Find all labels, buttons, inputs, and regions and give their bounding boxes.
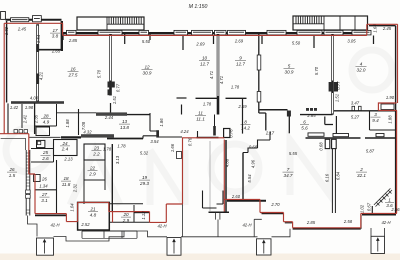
svg-text:2.85: 2.85 (68, 38, 78, 43)
window right notch (381, 104, 394, 110)
svg-text:1.34: 1.34 (39, 184, 48, 189)
svg-text:24: 24 (61, 141, 68, 146)
svg-text:42-Н: 42-Н (50, 223, 60, 228)
wall bottom of room14 hatched (11, 101, 64, 104)
niche center wall (224, 129, 230, 138)
svg-text:4.24: 4.24 (180, 129, 189, 134)
duct box above wall (36, 127, 50, 136)
svg-text:22: 22 (89, 166, 96, 171)
svg-text:30.9: 30.9 (143, 70, 152, 75)
wall x150 (150, 113, 157, 131)
svg-text:0.77: 0.77 (336, 81, 341, 90)
door niche on red wall (177, 152, 182, 159)
svg-text:2.69: 2.69 (234, 39, 244, 44)
svg-text:2.45: 2.45 (17, 27, 27, 32)
svg-text:2.35: 2.35 (34, 114, 39, 124)
svg-text:21: 21 (89, 207, 96, 212)
svg-text:16: 16 (70, 67, 76, 72)
room7 top step walls (243, 132, 270, 153)
svg-text:2.31: 2.31 (73, 184, 78, 193)
center wall mid (214, 115, 216, 127)
room2 top wall (306, 137, 361, 139)
svg-text:5.50: 5.50 (142, 39, 151, 44)
kitchen niche piers (352, 106, 361, 110)
entrance boxes with arrows (37, 236, 385, 255)
arrow B1 (44, 242, 46, 254)
svg-text:2.2: 2.2 (92, 151, 100, 156)
cross wall center right (226, 97, 247, 99)
svg-text:1.88: 1.88 (65, 119, 70, 128)
room17 left wall double (36, 24, 39, 102)
room24 box (54, 140, 78, 156)
svg-text:4.71: 4.71 (219, 76, 224, 84)
svg-text:2.4: 2.4 (61, 147, 69, 152)
shower box (37, 140, 45, 147)
wall x336 upper (335, 116, 337, 134)
wall stub x314 (313, 36, 315, 49)
svg-text:1.51: 1.51 (112, 96, 117, 104)
svg-text:3.6: 3.6 (386, 203, 393, 208)
corridor bottom wall (197, 137, 219, 139)
svg-text:2.44: 2.44 (104, 115, 114, 120)
svg-text:12.7: 12.7 (200, 61, 209, 66)
svg-text:1.64: 1.64 (373, 24, 378, 33)
svg-text:32.0: 32.0 (357, 67, 366, 72)
wall left of room 11 (181, 105, 183, 115)
svg-text:2.65: 2.65 (51, 49, 61, 54)
svg-text:1.04: 1.04 (70, 203, 75, 212)
wall under red 134-150 (134, 212, 150, 214)
svg-text:1.42: 1.42 (10, 105, 19, 110)
svg-text:12.7: 12.7 (236, 61, 245, 66)
left outer wall upper (6, 21, 8, 103)
bottom wall far right (362, 214, 396, 216)
window ticks on red wall (14, 130, 28, 133)
wall step x62 (61, 21, 63, 51)
window glass bars (12, 19, 370, 33)
porch glazing band bottom-left (82, 231, 137, 238)
svg-text:30.9: 30.9 (285, 69, 294, 74)
room3 walls (370, 111, 396, 130)
svg-text:10: 10 (202, 56, 208, 61)
svg-text:4.71: 4.71 (209, 71, 214, 79)
svg-text:М 1:150: М 1:150 (189, 4, 208, 10)
wall stub x183 (182, 35, 184, 51)
wall between rooms 12 and 16 (109, 34, 112, 96)
corridor wall thin (57, 112, 97, 114)
svg-text:0.76: 0.76 (188, 137, 193, 146)
diagonal stair bottom right (372, 188, 392, 213)
svg-text:2.13: 2.13 (63, 157, 73, 162)
svg-text:32.1: 32.1 (357, 173, 366, 178)
svg-text:4.96: 4.96 (251, 159, 256, 168)
red right band (367, 24, 398, 103)
window w10 (324, 30, 343, 35)
arrow B4 (377, 240, 379, 252)
room2 top wall right (365, 137, 396, 139)
bay window tl2 (33, 16, 42, 22)
room22 walls (84, 160, 105, 204)
wall hatched 4.32 (81, 134, 114, 137)
svg-text:1.02: 1.02 (360, 204, 365, 213)
svg-text:1.02: 1.02 (4, 26, 9, 35)
window w5 (192, 30, 213, 35)
svg-text:2.52: 2.52 (80, 222, 90, 227)
window w8 (267, 30, 286, 35)
svg-text:3.47: 3.47 (351, 101, 360, 106)
svg-text:2.45: 2.45 (382, 26, 392, 31)
svg-text:0.68: 0.68 (249, 145, 258, 150)
svg-text:2.85: 2.85 (306, 220, 316, 225)
window w9 (297, 30, 322, 35)
svg-text:1.78: 1.78 (231, 85, 240, 90)
water heater box (34, 175, 41, 182)
wall stub x262 (261, 36, 263, 45)
svg-text:2.6: 2.6 (41, 156, 49, 161)
red right notch (378, 103, 397, 110)
svg-text:42-Н: 42-Н (242, 223, 252, 228)
vestibule center bottom (203, 191, 224, 209)
window w2 (98, 30, 122, 35)
svg-text:2.58: 2.58 (343, 219, 353, 224)
center lower wall (209, 140, 230, 212)
wall top-left band (6, 19, 62, 21)
window tl1 (11, 18, 29, 22)
svg-text:3.1: 3.1 (41, 198, 48, 203)
window w11 (352, 30, 371, 35)
svg-text:1.51: 1.51 (335, 94, 340, 102)
svg-text:42-Н: 42-Н (157, 224, 167, 229)
svg-text:20: 20 (122, 212, 129, 217)
red center wall lower (223, 140, 225, 212)
room27 right wall (56, 160, 58, 214)
red main top line (63, 34, 367, 36)
svg-text:27.5: 27.5 (68, 72, 78, 77)
svg-text:4.21: 4.21 (39, 72, 44, 80)
svg-text:5.6: 5.6 (301, 125, 308, 130)
room21 box (78, 202, 110, 230)
svg-text:1.90: 1.90 (386, 95, 395, 100)
wall stub x63 (62, 34, 64, 40)
balcony26 outline (1, 138, 26, 150)
faint watermark (6, 50, 392, 205)
svg-text:13: 13 (122, 119, 128, 124)
svg-text:3: 3 (374, 112, 377, 117)
bottom cream band (0, 254, 400, 260)
wall 2.60 hatched (227, 200, 266, 202)
svg-text:1: 1 (388, 198, 391, 203)
svg-text:26: 26 (8, 167, 15, 172)
svg-text:4.00: 4.00 (30, 96, 39, 101)
wall y109.8 right center (260, 109, 288, 111)
window w7 (228, 30, 246, 35)
svg-text:5.54: 5.54 (247, 174, 252, 183)
svg-text:34.7: 34.7 (284, 173, 293, 178)
svg-text:5.27: 5.27 (351, 115, 360, 120)
room20 walls (109, 204, 150, 223)
arrow B2 (173, 241, 175, 254)
red right edge lower (396, 110, 398, 213)
svg-text:13.8: 13.8 (120, 125, 129, 130)
room19 top walls (107, 138, 143, 140)
svg-text:5.32: 5.32 (140, 151, 149, 156)
arrow B3 (263, 242, 265, 254)
svg-text:5.55: 5.55 (289, 151, 298, 156)
svg-text:1.86: 1.86 (159, 118, 164, 127)
red corridor corner (183, 137, 225, 139)
entrance box B3 (257, 239, 272, 255)
svg-text:4.32: 4.32 (83, 130, 92, 135)
svg-text:25: 25 (42, 150, 49, 155)
right top band wall (369, 26, 396, 103)
svg-text:1.54: 1.54 (36, 34, 41, 43)
svg-text:11: 11 (198, 111, 203, 116)
kitchen door piers right apartment (329, 82, 333, 92)
wall stub x124.7 (124, 34, 126, 44)
room27 top wall (35, 189, 57, 191)
svg-text:2.69: 2.69 (195, 42, 205, 47)
svg-text:1.66: 1.66 (170, 143, 175, 152)
wall y137 thin (29, 136, 61, 138)
wall under red y214 (35, 214, 66, 216)
wall x258.8 (258, 34, 260, 113)
svg-text:1.12: 1.12 (141, 211, 146, 220)
svg-text:5.70: 5.70 (97, 69, 102, 78)
corridor faint line (209, 141, 211, 211)
pier rects above wall (308, 133, 384, 137)
svg-text:7: 7 (287, 167, 290, 172)
wall x242.5 (242, 98, 244, 133)
svg-text:9.4: 9.4 (372, 118, 379, 123)
wall x265.8 (259, 113, 266, 131)
svg-text:0.68: 0.68 (319, 142, 324, 151)
svg-text:11.1: 11.1 (196, 116, 205, 121)
staircase left (77, 17, 144, 30)
room labels: number underlined with area below (7, 28, 394, 223)
red left apartment bottom (0, 134, 183, 223)
svg-text:5: 5 (288, 64, 291, 69)
wall right apt y110.8 (334, 110, 397, 112)
svg-text:0.76: 0.76 (228, 129, 233, 138)
wall rooms 4-5 divider (331, 34, 333, 115)
svg-text:2.9: 2.9 (88, 171, 96, 176)
svg-text:6.16: 6.16 (325, 173, 330, 182)
svg-text:2.69: 2.69 (237, 104, 247, 109)
svg-text:9: 9 (239, 56, 242, 61)
svg-text:18: 18 (63, 176, 69, 181)
left small wall below room14 (7, 103, 9, 133)
svg-text:26: 26 (41, 177, 47, 182)
window w1 (67, 30, 77, 35)
svg-text:1.78: 1.78 (203, 102, 212, 107)
svg-text:17: 17 (52, 28, 58, 33)
red left edge (3, 23, 5, 133)
entrance box B2 (167, 238, 181, 256)
svg-text:8: 8 (244, 120, 247, 125)
svg-text:19: 19 (142, 175, 148, 180)
svg-text:5.70: 5.70 (314, 66, 319, 75)
window w4 (174, 30, 188, 35)
svg-text:2.41: 2.41 (23, 115, 28, 124)
staircase right (293, 16, 368, 30)
svg-text:2.17: 2.17 (265, 131, 275, 136)
wall hatched 2.44 (96, 112, 127, 115)
svg-text:11.8: 11.8 (62, 182, 71, 187)
top-left band windows (11, 16, 42, 22)
svg-text:2.85: 2.85 (306, 113, 316, 118)
svg-text:6: 6 (303, 120, 306, 125)
window w6 (215, 30, 227, 35)
room25 walls (31, 149, 54, 163)
room7 left wall (242, 153, 244, 200)
svg-text:27: 27 (41, 192, 48, 197)
red apartment boundary lines (0, 23, 398, 228)
dimension texts (4, 24, 400, 229)
svg-text:1.88: 1.88 (388, 115, 393, 124)
svg-text:6.84: 6.84 (336, 171, 341, 180)
svg-text:3.05: 3.05 (347, 39, 356, 44)
svg-text:2.70: 2.70 (270, 202, 280, 207)
svg-text:5.87: 5.87 (366, 149, 375, 154)
svg-text:3.54: 3.54 (150, 139, 159, 144)
svg-text:28: 28 (42, 114, 49, 119)
wall y137 dark (61, 136, 81, 138)
wall stub x213.5 (213, 36, 215, 45)
svg-text:42-Н: 42-Н (381, 220, 391, 225)
steps walls right-center (262, 214, 293, 223)
red right-center boundary (224, 199, 396, 227)
right outer wall (395, 103, 397, 214)
insulated left wall double (26, 150, 30, 216)
room23 box (84, 144, 105, 160)
svg-text:1.78: 1.78 (117, 144, 126, 149)
svg-text:3.8: 3.8 (52, 34, 59, 39)
entrance box B4 (371, 236, 385, 253)
wall y114.5 (127, 114, 150, 116)
bottom outline thin black (28, 204, 385, 241)
red top-left band (4, 23, 62, 35)
svg-text:2.9: 2.9 (122, 218, 130, 223)
wall right apt y114.6 (300, 114, 333, 116)
svg-text:0.77: 0.77 (116, 83, 121, 92)
balcony top-left corner (1, 12, 6, 20)
room19 left wall (111, 144, 113, 211)
door piers below wall (325, 139, 336, 148)
room17 bottom wall (39, 49, 61, 51)
center wall x218 (217, 34, 220, 115)
svg-text:1.98: 1.98 (25, 105, 34, 110)
svg-text:2.60: 2.60 (231, 194, 241, 199)
svg-text:4.9: 4.9 (43, 119, 50, 124)
svg-text:4.88: 4.88 (225, 158, 230, 167)
svg-text:3.13: 3.13 (115, 155, 120, 164)
svg-text:4.8: 4.8 (90, 212, 97, 217)
svg-text:1.78: 1.78 (103, 147, 112, 152)
window w3 (139, 30, 149, 35)
wall stub x150 (149, 34, 151, 40)
svg-text:29.3: 29.3 (139, 181, 149, 186)
red room20 box (113, 212, 135, 223)
entrance box B1 (37, 238, 54, 255)
svg-text:12: 12 (144, 65, 150, 70)
left cluster verticals (21, 104, 23, 128)
bottom wall right (293, 228, 361, 230)
cross wall center left (196, 97, 218, 99)
svg-text:4: 4 (360, 62, 363, 67)
wall stub x373.5 (373, 36, 375, 45)
main top wall (63, 32, 367, 34)
svg-text:1.5: 1.5 (9, 173, 16, 178)
wall rooms 7-2 (332, 149, 335, 213)
svg-text:5.50: 5.50 (292, 41, 301, 46)
svg-text:2: 2 (359, 167, 363, 172)
svg-text:0.67: 0.67 (367, 202, 372, 211)
svg-text:23: 23 (93, 146, 100, 151)
wall x78 (78, 109, 80, 135)
svg-text:14.2: 14.2 (241, 125, 250, 130)
